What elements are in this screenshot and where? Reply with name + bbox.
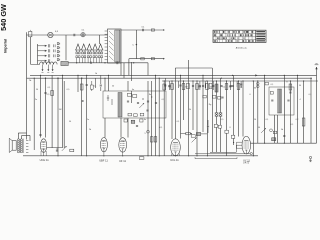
tube V2 UBF11 — [100, 138, 107, 152]
coil L7 var — [92, 44, 98, 63]
wire Fi1 secondary — [135, 30, 137, 59]
wire drop g — [131, 62, 133, 81]
junction l — [284, 143, 285, 144]
capacitor C14 — [179, 85, 181, 86]
resistor R5 — [127, 93, 131, 96]
label L1 — [82, 30, 86, 32]
rectifier D2 — [219, 113, 222, 116]
svg-text:Imperial: Imperial — [3, 39, 7, 53]
wire v216 — [216, 81, 218, 152]
wire v311 — [310, 78, 312, 143]
resistor R15 — [206, 84, 209, 90]
wire v284 — [283, 75, 285, 143]
loudspeaker LS — [9, 138, 16, 152]
wire v243 — [242, 81, 244, 137]
wire v78 — [77, 75, 79, 92]
coil L4 var — [75, 44, 81, 63]
wire dial bottom — [129, 58, 165, 60]
wire v232 — [233, 75, 235, 145]
svg-text:UF 11: UF 11 — [119, 159, 126, 163]
capacitor C16 — [202, 86, 204, 87]
coil tap arrow 2 — [47, 65, 49, 73]
capacitor C28 — [199, 81, 201, 90]
wire v40 — [40, 75, 42, 137]
junction g2 — [81, 78, 82, 79]
resistor R35 — [140, 113, 144, 116]
capacitor C4 — [142, 29, 143, 31]
resistor R22 — [225, 130, 229, 133]
wire switch column B — [37, 44, 39, 65]
potentiometer P1 — [62, 146, 67, 151]
capacitor C19 — [207, 120, 209, 133]
capacitor C11 — [137, 102, 139, 103]
label u472 — [243, 163, 249, 165]
switch contact column — [57, 43, 60, 61]
wire v86 — [86, 75, 88, 155]
svg-text:Rg: Rg — [209, 104, 212, 106]
label UY11 — [243, 159, 251, 163]
scale lamps La2 — [257, 82, 260, 87]
wire corner to bus — [147, 63, 149, 76]
wire v34 — [33, 78, 35, 150]
svg-text:1M: 1M — [229, 87, 232, 89]
resistor R9 — [150, 137, 153, 142]
wire v1642 — [163, 81, 165, 156]
wire v257 — [257, 81, 259, 143]
switch S1a contacts — [48, 44, 50, 47]
capacitor C3 — [117, 61, 118, 64]
capacitor C24 — [86, 85, 88, 86]
coil L5 var — [81, 44, 87, 63]
wire V2 pins — [103, 152, 105, 156]
resistor R37 — [231, 135, 234, 138]
resistor R32 — [218, 97, 221, 100]
wire v2975 — [297, 75, 299, 143]
wire speaker up1 — [18, 133, 26, 139]
capacitor C20 — [271, 100, 273, 101]
choke L13 — [272, 138, 276, 141]
wire v1317 — [131, 91, 133, 103]
capacitor C2 — [90, 62, 92, 64]
model label 540 GW — [0, 4, 8, 31]
resistor R21 — [218, 125, 221, 128]
bus mid — [27, 77, 313, 79]
capacitor C31 — [229, 81, 231, 90]
resistor R10 — [154, 137, 157, 142]
bus arrow — [255, 74, 257, 76]
capacitor C17 — [220, 86, 222, 87]
wire drop to coil row — [65, 35, 67, 60]
wire heater chain — [195, 153, 250, 155]
resistor R29 — [187, 83, 190, 88]
bus lower right — [162, 80, 318, 82]
shield box Fi2 — [103, 91, 166, 118]
IF transformer Fi2 winding — [118, 93, 122, 118]
wire drop e — [128, 59, 130, 76]
wire v2904 — [289, 81, 291, 143]
svg-text:1M: 1M — [59, 109, 62, 111]
potentiometer P3 — [192, 138, 197, 143]
brand label Imperial — [3, 39, 7, 53]
junction c — [133, 62, 134, 63]
capacitor C13 — [136, 126, 138, 127]
tube V1 UCH11 — [40, 139, 46, 153]
mains antenna symbol — [315, 63, 319, 69]
switch S1b contacts — [48, 49, 50, 52]
wire v52 — [51, 75, 53, 147]
coil L6 var — [87, 44, 93, 63]
bus B+ top — [30, 74, 317, 76]
wire v238 — [236, 81, 238, 152]
resistor R33 — [128, 113, 132, 116]
pilot lamp La — [48, 32, 53, 37]
switch S1d contacts — [48, 59, 50, 62]
wire v148 — [147, 81, 149, 156]
capacitor C1 — [74, 34, 75, 36]
resistor R8 — [140, 119, 143, 122]
junction a — [76, 62, 77, 63]
label C — [132, 45, 134, 47]
wire speaker up2 — [22, 136, 30, 142]
resistor R12 — [171, 84, 174, 90]
wire bracket — [195, 157, 237, 158]
junction e2 — [45, 78, 46, 79]
svg-text:540 GW: 540 GW — [0, 4, 8, 31]
capacitor C29 — [212, 81, 214, 90]
choke L10 — [131, 120, 135, 123]
capacitor C15 — [192, 86, 194, 87]
wire v45 — [45, 78, 47, 137]
IF transformer Fi1 core — [109, 31, 114, 61]
wire mains right — [316, 67, 318, 143]
tube V5 UY11 — [242, 136, 251, 154]
wire v1555 — [155, 75, 157, 155]
junction d — [136, 44, 137, 45]
wire tick v205 — [204, 81, 206, 88]
capacitor C12 — [147, 101, 149, 102]
resistor R14 — [196, 84, 199, 90]
label UCL11 — [170, 158, 179, 162]
top cap node — [250, 153, 252, 155]
resistor R2 — [51, 91, 54, 96]
capacitor C10 — [127, 101, 129, 102]
resistor R1 — [141, 58, 144, 60]
resistor R18 — [186, 132, 190, 134]
iron-core choke L3 — [61, 61, 68, 65]
junction n — [233, 142, 234, 143]
capacitor C22 — [283, 136, 285, 137]
wire coil row output — [68, 62, 148, 64]
svg-text:UBF 11: UBF 11 — [99, 159, 108, 163]
svg-text:2M: 2M — [185, 87, 188, 89]
coil tap arrow 3 — [52, 65, 54, 73]
switch S1a wiper — [38, 45, 47, 47]
resistor R27 — [302, 118, 305, 126]
bus chassis bottom — [23, 155, 258, 157]
wire tick v237 — [236, 81, 238, 87]
coil L8 var — [98, 44, 104, 63]
resistor R24 — [270, 92, 273, 95]
capacitor C33 — [146, 110, 148, 111]
wire v183 — [183, 81, 185, 120]
wire v172 — [171, 81, 173, 139]
resistor R3 — [70, 149, 74, 151]
switch S1b wiper — [38, 50, 47, 52]
switch S1c contacts — [48, 54, 50, 57]
resistor R30 — [209, 83, 212, 88]
wire tick v178 — [178, 81, 180, 88]
svg-text:UCL 11: UCL 11 — [170, 158, 179, 162]
IF transformer Fi1 body — [105, 29, 121, 63]
label C4 — [142, 27, 146, 29]
capacitor C34 — [155, 103, 157, 104]
junction k — [264, 143, 265, 144]
wire v193 — [192, 81, 194, 130]
svg-text:5k: 5k — [189, 109, 191, 111]
capacitor C8 — [44, 93, 46, 94]
wire V4 anode link — [181, 133, 208, 135]
junction f2 — [57, 78, 58, 79]
resistor R34 — [134, 114, 138, 117]
wire v2646 — [264, 75, 266, 143]
wire v58 — [57, 78, 59, 156]
dial scale box — [213, 30, 266, 42]
label 6,3V — [55, 31, 59, 33]
value labels — [35, 73, 312, 135]
junction h — [142, 98, 143, 99]
wire v1592 — [158, 78, 160, 156]
wire drop f — [123, 63, 125, 78]
wire v207 — [206, 81, 208, 156]
shield box Tr — [269, 87, 294, 115]
coil L1 — [81, 33, 85, 37]
tube V3 UF11 — [119, 138, 127, 152]
wire v197 — [196, 81, 198, 156]
resistor R6 — [133, 95, 137, 98]
resistor R26 — [289, 84, 292, 90]
resistor R25 — [273, 131, 276, 133]
wire v175 — [174, 77, 176, 140]
capacitor C23 — [289, 92, 291, 93]
wire v1517 — [151, 81, 153, 156]
label 7b — [29, 80, 32, 82]
wire v62 — [62, 75, 64, 147]
fuse Si — [29, 30, 32, 37]
wire hline mid — [210, 151, 236, 153]
capacitor C7 — [39, 134, 41, 135]
wire tick enc1 — [107, 95, 109, 101]
rectifier D1 — [215, 113, 218, 116]
resistor R7 — [124, 119, 127, 122]
wire tick enc2 — [111, 99, 113, 105]
wire V4 pins — [172, 154, 180, 156]
component box K1 — [139, 157, 144, 160]
wire v226 — [226, 81, 228, 156]
label Antriebsskala — [236, 46, 248, 49]
resistor R28 — [90, 81, 93, 91]
choke L11 — [215, 84, 218, 92]
svg-text:UCH 11: UCH 11 — [40, 158, 50, 162]
junction b — [104, 62, 105, 63]
transformer Tr2 + connector pins — [17, 139, 28, 153]
resistor R19 — [191, 135, 195, 138]
svg-text:u 472: u 472 — [243, 163, 249, 165]
resistor R11 — [163, 84, 166, 90]
wire left main — [26, 78, 28, 139]
capacitor C27 — [168, 81, 170, 90]
trimmer C5 — [151, 29, 154, 31]
svg-text:Tr: Tr — [286, 82, 288, 84]
potentiometer P2 — [139, 103, 144, 108]
valve cap j1 — [147, 130, 150, 133]
wire loop — [175, 68, 212, 77]
resistor R20 — [214, 124, 217, 127]
wire tick v95 — [95, 78, 97, 88]
label UF11 — [119, 159, 126, 163]
wire v221 — [220, 78, 222, 152]
wire drop to osc coils — [98, 35, 100, 44]
coil L2 antenna — [30, 62, 57, 65]
resistor R23 — [265, 82, 268, 85]
capacitor C25 — [100, 75, 102, 91]
capacitor C30 — [221, 97, 223, 98]
capacitor C32 — [240, 81, 242, 88]
switch S1a contacts2 — [54, 44, 56, 47]
capacitor C26 — [164, 78, 166, 90]
wire V5 pins — [237, 142, 243, 148]
resistor R16 — [225, 84, 228, 90]
wire v2777 — [277, 115, 279, 143]
label UCH11 — [40, 158, 50, 162]
capacitor C21 — [287, 100, 289, 101]
label UBF11 — [99, 159, 108, 163]
wire v121 — [120, 63, 122, 138]
wire V3 pins — [122, 152, 124, 156]
choke L12 — [196, 132, 200, 135]
wire v1887 — [188, 60, 190, 156]
coil tap arrow 1 — [42, 65, 44, 73]
capacitor C18 — [231, 86, 233, 87]
wire v3036 — [303, 81, 305, 143]
switch S1b contacts2 — [54, 49, 56, 52]
bus junctions — [34, 75, 312, 157]
wire v108 — [108, 75, 110, 91]
wire switch column A — [29, 37, 31, 64]
wire v81 — [81, 78, 83, 156]
tube V4 UCL11 — [171, 139, 181, 156]
wire v128 — [127, 81, 129, 138]
svg-text:Antriebs-sk.: Antriebs-sk. — [236, 46, 248, 49]
junction i — [191, 133, 192, 134]
switch S1c wiper — [38, 55, 47, 57]
switch S1c contacts2 — [54, 54, 56, 57]
valve cap j2 — [270, 129, 273, 132]
resistor R36 — [203, 95, 206, 98]
wire v105 — [104, 78, 106, 137]
resistor R17 — [237, 84, 240, 90]
wire v274 — [274, 115, 276, 143]
wire v1805 — [180, 75, 182, 138]
wire v64 — [63, 81, 65, 148]
wire heater line — [27, 34, 108, 36]
wire dial top — [121, 29, 165, 31]
capacitor C35 — [56, 148, 58, 151]
IF transformer Fi1 winding — [115, 30, 120, 62]
wire V1 grid — [47, 147, 63, 149]
transformer Tr winding — [278, 89, 282, 113]
switch S1d wiper — [38, 60, 47, 62]
wire v253 — [252, 81, 254, 156]
resistor R4 — [80, 84, 83, 90]
junction m — [151, 96, 152, 97]
capacitor C9 — [81, 101, 83, 102]
wire left main drop — [26, 32, 28, 78]
wire hline right — [251, 142, 317, 144]
potentiometer P4 — [261, 128, 266, 133]
resistor R31 — [213, 96, 216, 99]
wire V1 pins — [41, 151, 46, 156]
wire v203 — [202, 75, 204, 132]
phone jack Bu — [309, 156, 312, 162]
resistor R13 — [182, 84, 185, 90]
wire v212 — [211, 77, 213, 153]
trimmer C6 — [151, 58, 154, 60]
